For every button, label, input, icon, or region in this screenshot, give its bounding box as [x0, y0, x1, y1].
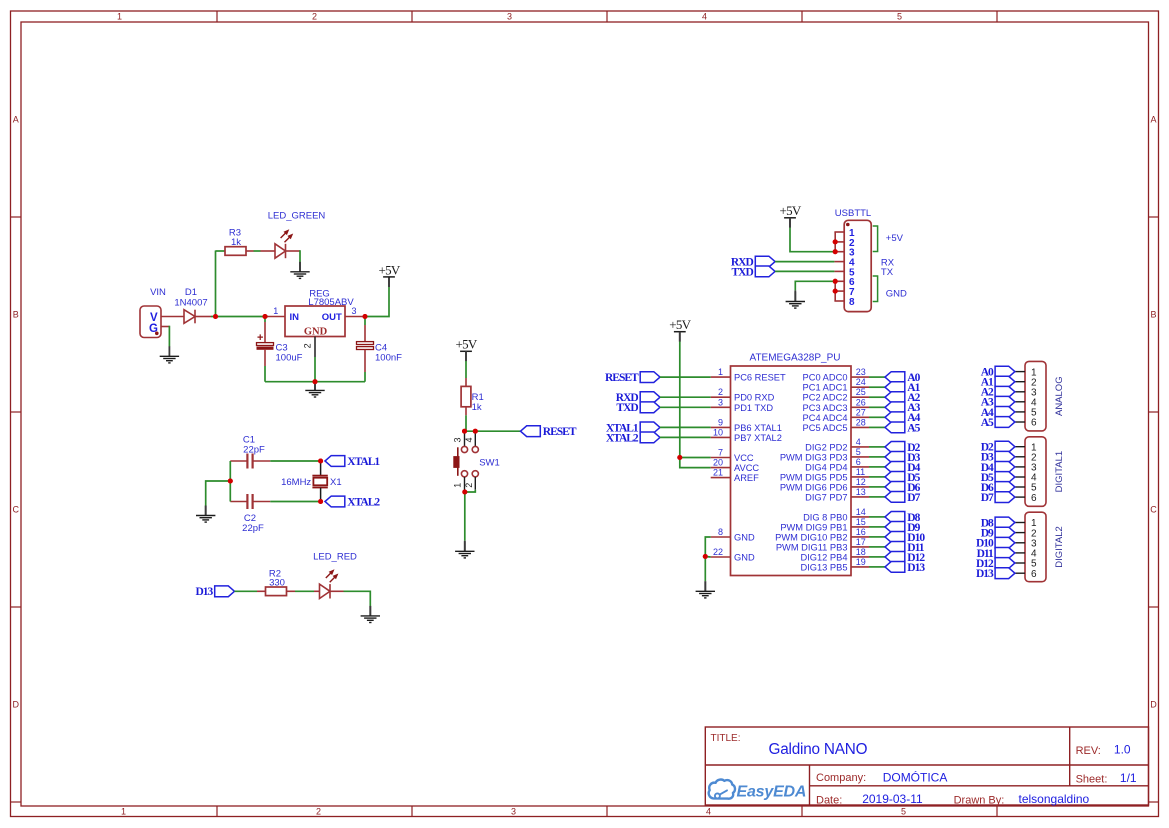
svg-text:PC3 ADC3: PC3 ADC3	[803, 403, 848, 413]
svg-text:D13: D13	[907, 562, 925, 574]
svg-text:REV:: REV:	[1076, 745, 1101, 757]
svg-text:D: D	[13, 700, 20, 710]
svg-text:L7805ABV: L7805ABV	[308, 297, 354, 308]
svg-text:Drawn By:: Drawn By:	[954, 795, 1005, 807]
port TXD at USBTTL	[755, 266, 775, 277]
wire D13 to R2	[235, 590, 258, 592]
port A4 at ANALOG	[995, 407, 1015, 418]
connector DIGITAL2	[1025, 512, 1046, 582]
wire OUT to +5V	[366, 287, 389, 317]
svg-text:1: 1	[121, 807, 126, 817]
port RESET	[521, 426, 541, 437]
wire RESET to pin1	[660, 376, 711, 378]
svg-text:4: 4	[706, 807, 711, 817]
wire pin 28 to port A5	[869, 426, 885, 428]
capacitor C4	[364, 317, 366, 326]
svg-text:OUT: OUT	[322, 312, 342, 323]
wire pin 18 to port D12	[869, 556, 885, 558]
capacitor C1	[230, 460, 247, 462]
node caps ground dot	[228, 479, 233, 484]
svg-text:9: 9	[718, 417, 723, 427]
U1 pin 14 DIG 8 PB0	[851, 516, 869, 518]
svg-text:2: 2	[312, 12, 317, 22]
svg-text:C: C	[13, 505, 20, 515]
port A0 at U1	[885, 372, 905, 383]
port D2 at DIGITAL1	[995, 441, 1015, 452]
svg-text:A5: A5	[907, 422, 920, 434]
svg-text:XTAL2: XTAL2	[347, 496, 380, 508]
port D11 at DIGITAL2	[995, 548, 1015, 559]
ANALOG pin 6 wire	[1015, 421, 1025, 423]
svg-text:VIN: VIN	[150, 287, 166, 298]
port XTAL1	[325, 456, 345, 467]
svg-text:1/1: 1/1	[1120, 771, 1137, 785]
DIGITAL2 pin 3 wire	[1015, 542, 1025, 544]
U1 pin 25 PC2 ADC2	[851, 396, 869, 398]
wire USB pins 1-3 bus	[834, 232, 836, 252]
svg-text:27: 27	[856, 407, 866, 417]
wire C1 to XTAL1 node	[270, 460, 320, 462]
svg-text:6: 6	[1031, 569, 1037, 580]
power +5V at USBTTL	[789, 218, 791, 228]
svg-text:3: 3	[452, 437, 462, 442]
svg-text:10: 10	[713, 427, 723, 437]
port A5 at U1	[885, 422, 905, 433]
USBTTL pin 3	[834, 251, 844, 253]
wire RXD to USB pin4	[775, 261, 834, 263]
wire pin 15 to port D9	[869, 526, 885, 528]
svg-text:TITLE:: TITLE:	[711, 733, 741, 744]
wire TXD to pin3	[660, 406, 711, 408]
capacitor C2	[230, 501, 247, 503]
svg-text:22pF: 22pF	[243, 445, 265, 456]
svg-text:15: 15	[856, 517, 866, 527]
svg-text:A: A	[13, 115, 19, 125]
wire pin 24 to port A1	[869, 386, 885, 388]
svg-text:DIG 8 PB0: DIG 8 PB0	[803, 512, 847, 522]
svg-text:PC2 ADC2: PC2 ADC2	[803, 393, 848, 403]
svg-text:telsongaldino: telsongaldino	[1019, 792, 1090, 806]
svg-text:1: 1	[117, 12, 122, 22]
port A1 at ANALOG	[995, 376, 1015, 387]
wire LED_GREEN to ground	[286, 250, 301, 252]
USBTTL pin 2	[834, 241, 844, 243]
svg-text:DIG4 PD4: DIG4 PD4	[805, 462, 847, 472]
svg-text:XTAL2: XTAL2	[606, 432, 639, 444]
port D12 at U1	[885, 552, 905, 563]
svg-text:IN: IN	[290, 312, 300, 323]
svg-text:B: B	[1150, 310, 1156, 320]
wire pin 19 to port D13	[869, 566, 885, 568]
wire R3 to LED_GREEN	[246, 250, 254, 252]
wire pin 25 to port A2	[869, 396, 885, 398]
svg-text:D1: D1	[185, 287, 197, 298]
node junction USB pin3	[833, 249, 838, 254]
svg-text:25: 25	[856, 387, 866, 397]
port A5 at ANALOG	[995, 417, 1015, 428]
port XTAL2 at U1	[640, 432, 660, 443]
power +5V at R1	[465, 351, 467, 361]
connector ANALOG	[1025, 361, 1046, 431]
svg-text:5: 5	[901, 807, 906, 817]
svg-text:22: 22	[713, 547, 723, 557]
wire R2 to LED_RED	[295, 590, 314, 592]
svg-text:A5: A5	[981, 417, 994, 429]
port D10 at DIGITAL2	[995, 537, 1015, 548]
svg-text:PC6 RESET: PC6 RESET	[734, 373, 786, 383]
U1 pin 4 DIG2 PD2	[851, 446, 869, 448]
wire +5V rail to VCC AVCC	[679, 332, 681, 342]
svg-text:8: 8	[849, 297, 855, 308]
port D12 at DIGITAL2	[995, 558, 1015, 569]
svg-text:ANALOG: ANALOG	[1054, 376, 1065, 416]
svg-text:7: 7	[718, 448, 723, 458]
port D10 at U1	[885, 532, 905, 543]
svg-text:11: 11	[856, 467, 865, 477]
U1 pin 18 DIG12 PB4	[851, 556, 869, 558]
port D2 at U1	[885, 442, 905, 453]
wire pin 5 to port D3	[869, 456, 885, 458]
port D13	[215, 586, 235, 597]
node VCC rail dot	[677, 455, 682, 460]
wire SW1 to RESET port	[464, 430, 520, 432]
svg-text:Date:: Date:	[816, 795, 842, 807]
node junction USB pin6	[833, 279, 838, 284]
svg-text:D: D	[1150, 700, 1157, 710]
LED LED_RED	[320, 584, 331, 598]
port XTAL1 at U1	[640, 422, 660, 433]
port D5 at DIGITAL1	[995, 472, 1015, 483]
U1 pin 5 PWM DIG3 PD3	[851, 456, 869, 458]
node SW1 ground dot	[462, 490, 467, 495]
svg-text:100uF: 100uF	[276, 353, 303, 364]
node C3 dot	[263, 314, 268, 319]
svg-text:D7: D7	[907, 492, 920, 504]
node ground rail dot	[313, 379, 318, 384]
svg-text:8: 8	[718, 527, 723, 537]
svg-text:18: 18	[856, 547, 866, 557]
wire C1 C2 left join	[229, 461, 231, 502]
svg-text:2: 2	[718, 387, 723, 397]
ground at LED_GREEN	[290, 262, 309, 279]
ground at USBTTL	[786, 292, 805, 309]
svg-text:ATEMEGA328P_PU: ATEMEGA328P_PU	[750, 353, 841, 364]
node USB pin3 dot	[833, 249, 838, 254]
svg-text:3: 3	[511, 807, 516, 817]
port D11 at U1	[885, 542, 905, 553]
port D3 at U1	[885, 452, 905, 463]
U1 pin 17 PWM DIG11 PB3	[851, 546, 869, 548]
USBTTL pin 6	[834, 280, 844, 282]
port D7 at U1	[885, 492, 905, 503]
svg-text:DIG13 PB5: DIG13 PB5	[800, 562, 847, 572]
svg-text:+5V: +5V	[455, 337, 477, 352]
svg-text:4: 4	[702, 12, 707, 22]
node USB pin2 dot	[833, 239, 838, 244]
U1 pin 28 PC5 ADC5	[851, 426, 869, 428]
svg-text:DIGITAL1: DIGITAL1	[1054, 451, 1065, 493]
node junction USB pin7	[833, 289, 838, 294]
svg-text:1: 1	[718, 367, 723, 377]
U1 pin 22 GND	[711, 556, 731, 558]
svg-text:X1: X1	[330, 477, 342, 488]
bracket +5V pins 1-3	[873, 226, 878, 252]
svg-text:Sheet:: Sheet:	[1076, 774, 1108, 786]
ANALOG pin 1 wire	[1015, 371, 1025, 373]
svg-text:GND: GND	[886, 289, 907, 300]
svg-text:1: 1	[452, 483, 462, 488]
ANALOG pin 3 wire	[1015, 391, 1025, 393]
wire TXD to USB pin5	[775, 270, 834, 272]
node XTAL1 dot	[318, 459, 323, 464]
DIGITAL1 pin 1 wire	[1015, 446, 1025, 448]
wire pin 16 to port D10	[869, 536, 885, 538]
svg-text:17: 17	[856, 537, 866, 547]
wire +5V to USB pin 3	[789, 218, 791, 228]
svg-text:DOMÓTICA: DOMÓTICA	[883, 770, 948, 785]
svg-text:B: B	[13, 310, 19, 320]
wire pin 27 to port A4	[869, 416, 885, 418]
U1 pin 9 PB6 XTAL1	[711, 426, 731, 428]
resistor R2	[257, 590, 266, 592]
svg-text:GND: GND	[734, 553, 755, 563]
svg-text:XTAL1: XTAL1	[347, 456, 380, 468]
DIGITAL1 pin 2 wire	[1015, 456, 1025, 458]
port A2 at U1	[885, 392, 905, 403]
svg-text:TXD: TXD	[616, 402, 638, 414]
ground at LED_RED	[361, 606, 380, 623]
node USB pin6 dot	[833, 279, 838, 284]
svg-text:6: 6	[1031, 493, 1037, 504]
node C4 dot	[363, 314, 368, 319]
port D8 at DIGITAL2	[995, 517, 1015, 528]
svg-text:12: 12	[856, 477, 866, 487]
svg-text:PC1 ADC1: PC1 ADC1	[803, 383, 848, 393]
port RESET at U1	[640, 372, 660, 383]
svg-text:LED_GREEN: LED_GREEN	[268, 211, 326, 222]
port D7 at DIGITAL1	[995, 492, 1015, 503]
wire SW1 pins to ground	[465, 490, 475, 492]
U1 pin 8 GND	[711, 536, 731, 538]
U1 pin 10 PB7 XTAL2	[711, 436, 731, 438]
port XTAL2	[325, 496, 345, 507]
port D9 at U1	[885, 522, 905, 533]
node junction SW1 pin4	[473, 429, 478, 434]
connector DIGITAL1	[1025, 437, 1046, 507]
port D6 at DIGITAL1	[995, 482, 1015, 493]
U1 pin 24 PC1 ADC1	[851, 386, 869, 388]
svg-text:VCC: VCC	[734, 453, 754, 463]
wire pin 12 to port D6	[869, 486, 885, 488]
U1 pin 2 PD0 RXD	[711, 396, 731, 398]
node junction at C4	[363, 314, 368, 319]
svg-text:20: 20	[713, 458, 723, 468]
USBTTL pin 7	[834, 290, 844, 292]
power +5V at regulator	[388, 277, 390, 287]
svg-text:3: 3	[351, 306, 356, 316]
port A3 at ANALOG	[995, 396, 1015, 407]
svg-text:1.0: 1.0	[1114, 743, 1131, 757]
wire pin 17 to port D11	[869, 546, 885, 548]
svg-text:GND: GND	[304, 326, 328, 337]
svg-text:3: 3	[507, 12, 512, 22]
wire pin 4 to port D2	[869, 446, 885, 448]
svg-text:22pF: 22pF	[242, 523, 264, 534]
svg-text:2019-03-11: 2019-03-11	[862, 792, 923, 806]
port D6 at U1	[885, 482, 905, 493]
U1 pin 6 DIG4 PD4	[851, 466, 869, 468]
U1 pin 12 PWM DIG6 PD6	[851, 486, 869, 488]
VIN pin V wire	[161, 316, 184, 318]
REG pin 2 GND wire	[314, 337, 316, 358]
node SW1 pin4 dot	[473, 429, 478, 434]
DIGITAL2 pin 5 wire	[1015, 562, 1025, 564]
power +5V at MCU	[679, 332, 681, 342]
svg-text:2: 2	[316, 807, 321, 817]
svg-text:+5V: +5V	[886, 233, 904, 244]
svg-text:1k: 1k	[472, 402, 482, 413]
node junction VCC	[677, 455, 682, 460]
svg-text:330: 330	[269, 578, 285, 589]
svg-text:D13: D13	[195, 586, 213, 598]
U1 pin 15 PWM DIG9 PB1	[851, 526, 869, 528]
node junction D1 output	[213, 314, 218, 319]
wire R1 to SW1	[465, 415, 467, 431]
ANALOG pin 5 wire	[1015, 411, 1025, 413]
ground at SW1	[455, 541, 474, 558]
svg-text:PWM DIG3 PD3: PWM DIG3 PD3	[780, 452, 848, 462]
node junction XTAL1	[318, 459, 323, 464]
svg-text:PB7 XTAL2: PB7 XTAL2	[734, 433, 782, 443]
svg-text:+5V: +5V	[779, 203, 801, 218]
svg-text:6: 6	[1031, 418, 1037, 429]
switch SW1	[464, 431, 466, 446]
U1 pin 20 AVCC	[711, 467, 731, 469]
U1 pin 13 DIG7 PD7	[851, 496, 869, 498]
wire pin 13 to port D7	[869, 496, 885, 498]
node XTAL2 dot	[318, 499, 323, 504]
U1 pin 26 PC3 ADC3	[851, 406, 869, 408]
svg-text:PD0 RXD: PD0 RXD	[734, 393, 775, 403]
ANALOG pin 2 wire	[1015, 381, 1025, 383]
svg-text:EasyEDA: EasyEDA	[737, 784, 807, 801]
USBTTL pin 1	[834, 231, 844, 233]
svg-text:4: 4	[464, 437, 474, 442]
wire RXD to pin2	[660, 396, 711, 398]
USBTTL pin 4	[834, 261, 844, 263]
svg-text:PWM DIG10 PB2: PWM DIG10 PB2	[775, 532, 847, 542]
node D1 output dot	[213, 314, 218, 319]
port TXD at U1	[640, 402, 660, 413]
U1 pin 7 VCC	[711, 457, 731, 459]
wire C2 to XTAL2 node	[270, 501, 320, 503]
svg-text:26: 26	[856, 397, 866, 407]
svg-text:C: C	[1150, 505, 1157, 515]
svg-text:AREF: AREF	[734, 473, 759, 483]
U1 pin 21 AREF	[711, 477, 731, 479]
port A3 at U1	[885, 402, 905, 413]
node junction ground rail	[313, 379, 318, 384]
port D8 at U1	[885, 512, 905, 523]
title block frame	[705, 727, 1148, 805]
capacitor C3	[264, 317, 266, 323]
svg-text:DIG2 PD2: DIG2 PD2	[805, 442, 847, 452]
svg-text:TX: TX	[881, 267, 894, 278]
USBTTL pin 8	[834, 300, 844, 302]
wire GND pins to ground	[705, 537, 710, 557]
svg-text:SW1: SW1	[479, 457, 500, 468]
svg-text:23: 23	[856, 367, 866, 377]
svg-text:13: 13	[856, 487, 866, 497]
svg-text:19: 19	[856, 557, 866, 567]
svg-text:RESET: RESET	[543, 426, 577, 438]
port D4 at U1	[885, 462, 905, 473]
VIN pin G wire	[161, 326, 169, 328]
svg-text:3: 3	[718, 397, 723, 407]
wire ground rail under REG	[265, 381, 365, 383]
wire up to R3 branch	[215, 251, 217, 318]
svg-text:LED_RED: LED_RED	[313, 552, 357, 563]
ground at VIN	[160, 346, 179, 363]
DIGITAL1 pin 3 wire	[1015, 466, 1025, 468]
port A4 at U1	[885, 412, 905, 423]
U1 pin 3 PD1 TXD	[711, 406, 731, 408]
U1 pin 1 PC6 RESET	[711, 376, 731, 378]
svg-text:PWM DIG11 PB3: PWM DIG11 PB3	[776, 542, 848, 552]
node junction USB pin2	[833, 239, 838, 244]
wire diode to node VIN_REG	[211, 316, 268, 318]
DIGITAL1 pin 5 wire	[1015, 486, 1025, 488]
svg-text:PC5 ADC5: PC5 ADC5	[803, 423, 848, 433]
wire pin 14 to port D8	[869, 516, 885, 518]
ground at regulator	[314, 382, 316, 390]
svg-text:PWM DIG9 PB1: PWM DIG9 PB1	[780, 522, 847, 532]
wire pin 26 to port A3	[869, 406, 885, 408]
DIGITAL2 pin 1 wire	[1015, 522, 1025, 524]
svg-text:PC4 ADC4: PC4 ADC4	[803, 413, 848, 423]
svg-text:5: 5	[856, 447, 861, 457]
wire node to REG IN	[268, 316, 286, 318]
svg-text:DIGITAL2: DIGITAL2	[1054, 526, 1065, 568]
ground at crystal	[196, 506, 215, 523]
DIGITAL1 pin 4 wire	[1015, 476, 1025, 478]
diode D1	[184, 310, 195, 324]
wire XTAL1 to pin9	[660, 426, 711, 428]
port D4 at DIGITAL1	[995, 462, 1015, 473]
port D13 at U1	[885, 562, 905, 573]
wire +5V to R1	[465, 351, 467, 361]
svg-text:USBTTL: USBTTL	[835, 208, 871, 219]
svg-text:6: 6	[856, 457, 861, 467]
svg-text:1: 1	[273, 306, 278, 316]
svg-text:1k: 1k	[231, 237, 241, 248]
svg-text:16: 16	[856, 527, 866, 537]
svg-text:1N4007: 1N4007	[174, 298, 207, 309]
ANALOG pin 4 wire	[1015, 401, 1025, 403]
svg-text:AVCC: AVCC	[734, 463, 759, 473]
U1 pin 16 PWM DIG10 PB2	[851, 536, 869, 538]
svg-text:RESET: RESET	[605, 372, 639, 384]
resistor R3	[216, 250, 226, 252]
svg-text:4: 4	[856, 437, 861, 447]
port D13 at DIGITAL2	[995, 568, 1015, 579]
svg-text:A: A	[1150, 115, 1156, 125]
port A2 at ANALOG	[995, 386, 1015, 397]
svg-text:PC0 ADC0: PC0 ADC0	[803, 373, 848, 383]
svg-text:28: 28	[856, 417, 866, 427]
EasyEDA logo	[709, 780, 807, 801]
chip U1 ATEMEGA328P_PU	[731, 366, 852, 576]
